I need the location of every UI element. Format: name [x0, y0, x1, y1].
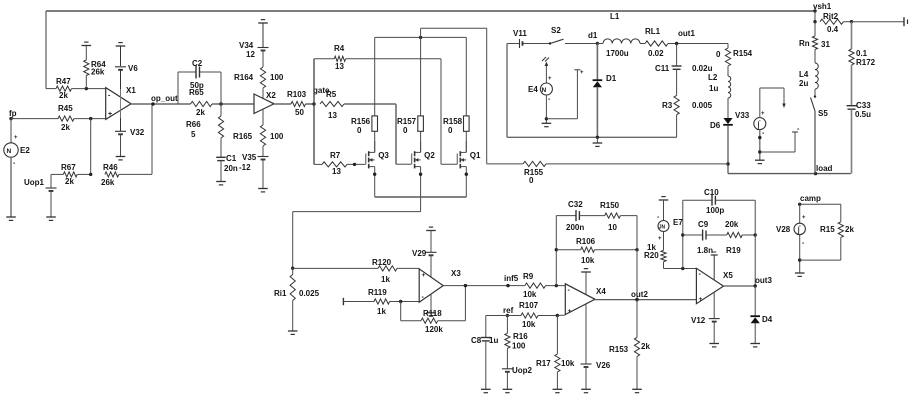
svg-text:1k: 1k	[381, 275, 390, 284]
resistor R9	[523, 272, 565, 299]
svg-text:X1: X1	[126, 86, 136, 95]
svg-text:op_out: op_out	[151, 94, 178, 103]
svg-text:2k: 2k	[61, 123, 70, 132]
resistor R157	[397, 28, 423, 152]
svg-text:V6: V6	[128, 64, 138, 73]
capacitor C2	[178, 59, 221, 104]
source E2	[4, 119, 31, 167]
wire bus to sense node	[293, 212, 421, 269]
svg-text:L4: L4	[799, 70, 809, 79]
op-amp X5	[696, 268, 733, 303]
wire S5 to load	[814, 111, 816, 174]
wire R5 to Q2 gate	[396, 104, 412, 164]
svg-text:out1: out1	[678, 29, 695, 38]
svg-text:R4: R4	[334, 44, 345, 53]
resistor Ri1	[274, 267, 320, 332]
svg-text:2k: 2k	[641, 342, 650, 351]
resistor R64	[84, 46, 107, 89]
wire drain bus A	[375, 36, 467, 39]
svg-text:13: 13	[328, 111, 337, 120]
svg-text:R19: R19	[726, 246, 741, 255]
resistor R66	[186, 104, 224, 157]
svg-text:2k: 2k	[845, 225, 854, 234]
svg-text:R66: R66	[186, 120, 201, 129]
resistor R16	[505, 316, 528, 351]
battery Uop1	[24, 174, 57, 217]
svg-text:C10: C10	[704, 188, 719, 197]
resistor R19	[706, 220, 757, 255]
capacitor C32	[556, 200, 584, 286]
inductor L1	[597, 12, 645, 58]
resistor R15	[800, 204, 855, 260]
svg-text:R45: R45	[58, 104, 73, 113]
wire V33 to ground	[758, 130, 765, 160]
ground below V12	[709, 344, 719, 347]
svg-text:Q1: Q1	[470, 151, 481, 160]
wire out2	[595, 298, 696, 301]
svg-text:R16: R16	[513, 332, 528, 341]
wire C10 right leg	[754, 200, 756, 286]
svg-text:V11: V11	[513, 29, 527, 38]
inductor L4	[799, 63, 818, 97]
resistor R7	[314, 151, 366, 176]
node fp	[9, 109, 17, 120]
wire V28 to ground	[798, 235, 805, 273]
resistor R150	[579, 201, 637, 232]
svg-text:JN: JN	[659, 225, 666, 231]
battery V29	[412, 231, 437, 278]
node camp	[798, 194, 821, 206]
resistor R154	[716, 44, 753, 67]
ground above V6	[116, 43, 126, 46]
svg-text:R120: R120	[372, 258, 392, 267]
svg-text:V26: V26	[596, 361, 611, 370]
svg-text:V33: V33	[735, 111, 750, 120]
capacitor C8	[471, 316, 507, 390]
wire C32 right leg	[636, 216, 638, 300]
svg-text:R20: R20	[644, 251, 659, 260]
resistor R119	[368, 288, 419, 316]
ground below C8	[481, 389, 491, 392]
capacitor C1	[216, 154, 238, 182]
terminal bars right	[904, 17, 908, 26]
E4 control bracket	[546, 70, 584, 119]
svg-text:C1: C1	[226, 154, 237, 163]
resistor R118	[401, 286, 466, 334]
resistor R46	[101, 104, 152, 187]
ground below D4	[750, 344, 760, 347]
ground below R153	[632, 389, 642, 392]
svg-text:0.5u: 0.5u	[855, 110, 871, 119]
svg-text:+: +	[548, 76, 552, 82]
svg-text:+: +	[422, 272, 426, 279]
wire E4 to ground	[545, 95, 551, 123]
svg-text:D6: D6	[710, 121, 721, 130]
resistor R47	[46, 77, 106, 100]
switch S5	[811, 95, 829, 118]
source V33	[735, 111, 766, 131]
svg-text:S2: S2	[551, 26, 561, 35]
wire C2 right leg	[220, 72, 222, 104]
svg-text:R5: R5	[326, 90, 337, 99]
svg-text:D4: D4	[762, 315, 773, 324]
svg-text:V29: V29	[412, 249, 427, 258]
svg-text:0.005: 0.005	[692, 101, 713, 110]
source V28	[776, 204, 806, 235]
svg-text:0.025: 0.025	[299, 289, 320, 298]
capacitor C9	[681, 220, 713, 255]
svg-text:+: +	[14, 135, 18, 141]
resistor R165	[233, 109, 284, 156]
svg-text:R3: R3	[662, 101, 673, 110]
battery V26	[581, 304, 611, 389]
resistor R106	[555, 237, 639, 265]
node inf5	[504, 274, 519, 287]
svg-text:X3: X3	[451, 269, 461, 278]
svg-text:R118: R118	[423, 309, 442, 318]
svg-text:100: 100	[270, 132, 284, 141]
V33 control bracket	[760, 126, 800, 152]
node op_out	[131, 94, 191, 106]
svg-text:C2: C2	[192, 59, 203, 68]
capacitor C11	[655, 44, 713, 96]
transistor Q3	[366, 141, 390, 197]
svg-text:V35: V35	[242, 153, 257, 162]
svg-text:R155: R155	[524, 168, 544, 177]
svg-text:120k: 120k	[425, 325, 443, 334]
resistor Rit2	[820, 12, 904, 34]
battery V32	[115, 128, 145, 157]
svg-text:13: 13	[335, 62, 344, 71]
svg-text:V12: V12	[691, 316, 706, 325]
svg-text:0.02u: 0.02u	[692, 64, 713, 73]
resistor Rn	[799, 22, 830, 63]
svg-text:0: 0	[403, 126, 408, 135]
wire E2 to ground	[10, 157, 12, 217]
svg-text:26k: 26k	[101, 178, 115, 187]
wire X3 output	[443, 284, 525, 287]
svg-text:13: 13	[332, 167, 341, 176]
svg-text:Rit2: Rit2	[823, 12, 839, 21]
svg-text:R156: R156	[351, 117, 371, 126]
svg-text:R67: R67	[61, 163, 76, 172]
svg-text:C32: C32	[568, 200, 583, 209]
ground below V28	[795, 273, 805, 276]
svg-text:D1: D1	[606, 74, 617, 83]
svg-text:10k: 10k	[561, 359, 575, 368]
svg-text:R153: R153	[609, 345, 629, 354]
ground below V35	[258, 189, 268, 192]
ground below R17	[553, 389, 563, 392]
svg-text:2k: 2k	[196, 108, 205, 117]
capacitor C10	[683, 188, 755, 269]
ground below d1 rail	[593, 137, 603, 146]
svg-text:1k: 1k	[377, 307, 386, 316]
svg-text:R119: R119	[368, 288, 387, 297]
wire inverting node	[90, 119, 92, 175]
svg-text:R65: R65	[189, 88, 204, 97]
svg-text:E2: E2	[20, 146, 30, 155]
ground below Uop1	[46, 217, 56, 220]
svg-text:+: +	[658, 236, 662, 242]
svg-text:-12: -12	[239, 163, 251, 172]
svg-text:R15: R15	[820, 225, 835, 234]
svg-text:2k: 2k	[59, 91, 68, 100]
resistor R67	[51, 163, 92, 186]
svg-text:100p: 100p	[706, 206, 724, 215]
svg-text:0: 0	[357, 126, 362, 135]
svg-text:Rn: Rn	[799, 39, 810, 48]
svg-text:R17: R17	[536, 359, 551, 368]
resistor R20	[644, 232, 696, 271]
node out3	[724, 276, 773, 288]
svg-text:+: +	[761, 111, 765, 117]
wire load rail	[728, 164, 851, 175]
svg-text:1u: 1u	[709, 84, 718, 93]
transistor Q2	[412, 141, 436, 197]
svg-text:C8: C8	[471, 336, 482, 345]
svg-text:E7: E7	[673, 218, 683, 227]
resistor R5	[320, 90, 396, 120]
svg-text:10k: 10k	[523, 290, 537, 299]
svg-text:R164: R164	[234, 73, 254, 82]
svg-text:+: +	[108, 111, 112, 118]
ground below Uop2	[503, 389, 513, 392]
svg-text:R157: R157	[397, 117, 417, 126]
capacitor C33	[847, 65, 872, 174]
svg-text:N: N	[7, 148, 12, 155]
ground above V29	[426, 227, 436, 230]
node vsh1	[813, 2, 832, 23]
battery V11	[507, 29, 550, 48]
wire V11 left rail	[507, 44, 677, 140]
svg-text:100: 100	[270, 73, 284, 82]
svg-text:X4: X4	[596, 287, 606, 296]
resistor R17	[536, 316, 575, 390]
battery V34	[239, 23, 269, 59]
op-amp X1	[106, 70, 137, 131]
svg-text:V32: V32	[130, 128, 145, 137]
resistor R155	[487, 161, 728, 185]
svg-text:R9: R9	[523, 272, 534, 281]
ground below C1	[216, 182, 226, 185]
svg-text:R154: R154	[733, 49, 753, 58]
svg-text:fp: fp	[9, 109, 17, 118]
ground below V26	[581, 389, 591, 392]
svg-text:R107: R107	[519, 301, 539, 310]
svg-text:V28: V28	[776, 225, 791, 234]
svg-text:10: 10	[608, 223, 617, 232]
ground below E2	[6, 217, 16, 220]
node out1	[675, 29, 696, 45]
svg-text:N: N	[542, 87, 547, 94]
svg-text:R7: R7	[330, 151, 341, 160]
battery V35	[239, 153, 269, 189]
svg-text:0.1: 0.1	[856, 49, 868, 58]
svg-text:R158: R158	[443, 117, 463, 126]
svg-text:2k: 2k	[65, 177, 74, 186]
resistor R65	[189, 88, 254, 117]
resistor R45	[11, 104, 106, 132]
svg-text:0: 0	[529, 176, 534, 185]
resistor R158	[443, 37, 469, 152]
resistor R120	[293, 258, 420, 284]
op-amp X4	[565, 284, 606, 315]
wire source bus	[375, 197, 467, 212]
node d1	[588, 31, 599, 45]
svg-text:0.02: 0.02	[648, 49, 664, 58]
node out2	[631, 290, 648, 301]
svg-text:+: +	[802, 215, 806, 221]
svg-text:0.4: 0.4	[827, 25, 839, 34]
source E7	[657, 200, 683, 242]
svg-text:vsh1: vsh1	[813, 2, 832, 11]
ground below E4	[542, 123, 552, 126]
svg-text:C11: C11	[655, 64, 670, 73]
svg-text:Q2: Q2	[424, 151, 435, 160]
ground below Ri1	[288, 331, 298, 334]
svg-text:S5: S5	[818, 109, 828, 118]
svg-text:C33: C33	[856, 101, 871, 110]
svg-text:2u: 2u	[799, 79, 808, 88]
op-amp X3	[419, 269, 461, 302]
svg-text:camp: camp	[800, 194, 821, 203]
svg-text:20n: 20n	[224, 164, 238, 173]
svg-text:Q3: Q3	[378, 151, 389, 160]
svg-text:10k: 10k	[581, 256, 595, 265]
V33 top probe	[760, 88, 786, 118]
resistor R172	[849, 22, 876, 67]
wire drain bus B	[421, 28, 487, 164]
svg-text:0: 0	[448, 126, 453, 135]
diode D4	[750, 286, 772, 344]
svg-text:d1: d1	[588, 31, 598, 40]
svg-text:V34: V34	[239, 41, 254, 50]
svg-text:26k: 26k	[91, 68, 105, 77]
battery V6	[115, 46, 138, 73]
source E4	[528, 57, 552, 95]
svg-text:out3: out3	[755, 276, 772, 285]
transistor Q1	[457, 141, 481, 197]
input terminal I	[343, 298, 374, 305]
resistor R4	[314, 44, 441, 71]
svg-text:Ri1: Ri1	[274, 289, 287, 298]
inductor L2	[708, 66, 731, 118]
op-amp X5 supply tap	[711, 252, 718, 281]
diode D6	[710, 118, 733, 174]
battery V12	[691, 292, 720, 344]
node ref	[503, 306, 514, 317]
ground below V33	[755, 160, 765, 163]
ground below V32	[116, 157, 126, 160]
svg-text:Uop1: Uop1	[24, 178, 45, 187]
svg-text:31: 31	[821, 40, 830, 49]
svg-text:out2: out2	[631, 290, 648, 299]
svg-text:5: 5	[191, 130, 196, 139]
svg-text:inf5: inf5	[504, 274, 519, 283]
svg-text:Uop2: Uop2	[512, 366, 533, 375]
svg-text:+: +	[699, 296, 703, 303]
diode D1	[593, 44, 617, 138]
resistor R107	[507, 301, 565, 329]
svg-text:20k: 20k	[725, 220, 739, 229]
svg-text:R103: R103	[287, 90, 307, 99]
ground above R64	[82, 42, 92, 45]
resistor R3	[662, 95, 713, 137]
svg-text:R165: R165	[233, 132, 253, 141]
svg-text:1.8n: 1.8n	[697, 246, 713, 255]
svg-text:L2: L2	[708, 73, 718, 82]
svg-text:RL1: RL1	[645, 27, 661, 36]
svg-text:R172: R172	[856, 58, 876, 67]
svg-text:L1: L1	[610, 12, 620, 21]
battery Uop2	[502, 348, 533, 389]
ground above X4	[581, 269, 591, 294]
svg-text:R150: R150	[600, 201, 620, 210]
resistor RL1	[645, 27, 728, 58]
svg-text:200n: 200n	[566, 223, 584, 232]
wire R4 to Q1 gate	[441, 59, 457, 164]
node gate	[312, 59, 330, 165]
svg-text:R47: R47	[56, 77, 71, 86]
svg-text:50: 50	[295, 108, 304, 117]
svg-text:X5: X5	[723, 271, 733, 280]
svg-text:X2: X2	[266, 91, 276, 100]
svg-text:R46: R46	[103, 163, 118, 172]
svg-text:1u: 1u	[489, 336, 498, 345]
switch S2	[549, 26, 598, 45]
svg-text:load: load	[816, 164, 833, 173]
svg-text:E4: E4	[528, 85, 538, 94]
svg-text:C9: C9	[698, 220, 709, 229]
svg-text:12: 12	[246, 50, 255, 59]
op-amp X2	[254, 91, 276, 114]
wire top feedback rail	[46, 11, 815, 89]
svg-text:0: 0	[716, 50, 721, 59]
svg-text:10k: 10k	[522, 320, 536, 329]
svg-text:+: +	[568, 308, 572, 315]
resistor R103	[274, 90, 314, 117]
svg-text:+: +	[580, 70, 584, 76]
resistor R156	[351, 37, 378, 152]
resistor R153	[609, 300, 650, 389]
svg-text:100: 100	[512, 342, 526, 351]
svg-text:1700u: 1700u	[606, 49, 629, 58]
resistor R164	[234, 51, 284, 99]
svg-text:ref: ref	[503, 306, 514, 315]
svg-text:R106: R106	[576, 237, 596, 246]
ground above V34	[258, 20, 268, 23]
ground above E7	[659, 197, 669, 200]
ground below X3	[426, 294, 436, 316]
